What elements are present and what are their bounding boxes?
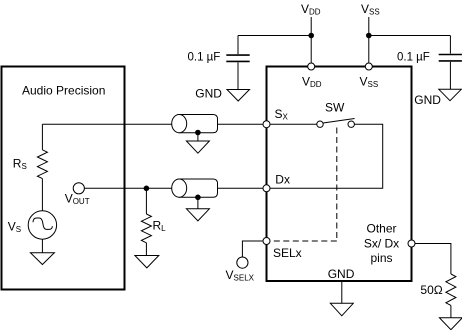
- svg-text:GND: GND: [328, 267, 355, 281]
- svg-text:50Ω: 50Ω: [420, 283, 442, 297]
- wire Sx inside IC: [270, 123, 317, 125]
- svg-text:0.1 µF: 0.1 µF: [397, 52, 430, 64]
- switch SW: [317, 119, 355, 128]
- junction coax1 shield: [195, 130, 201, 136]
- svg-text:Dx: Dx: [275, 173, 290, 187]
- wire RL top: [145, 188, 147, 214]
- wire SELx to VSELX: [242, 241, 263, 257]
- pin Sx: [263, 121, 270, 128]
- ground below RL: [135, 256, 159, 268]
- ground below R50: [439, 318, 462, 330]
- wire coax1 to ground: [197, 133, 199, 142]
- box Audio Precision: [2, 67, 125, 290]
- wire VDD vertical: [310, 17, 312, 63]
- dashed control line horizontal: [270, 240, 337, 242]
- svg-text:SELx: SELx: [273, 246, 302, 260]
- pin VSS: [365, 63, 372, 70]
- terminal VSELX: [237, 257, 248, 268]
- ground below coax1: [186, 141, 209, 153]
- junction VSS-cap: [366, 33, 372, 39]
- terminal VOUT: [73, 183, 84, 194]
- resistor RS: [37, 150, 47, 179]
- resistor RL: [141, 214, 151, 243]
- pin Dx: [263, 185, 270, 192]
- wire VSS to C2: [369, 35, 451, 37]
- coax shield on Sx line: [172, 115, 218, 133]
- junction Dx-RL: [144, 186, 150, 192]
- pin Other SxDx: [408, 240, 415, 247]
- wire RL to ground: [145, 243, 147, 256]
- wire RS top: [41, 124, 43, 150]
- wire Other pin to R 50: [415, 244, 451, 275]
- wire VDD to C1: [238, 35, 311, 37]
- ground below VS: [30, 253, 54, 265]
- svg-text:GND: GND: [195, 87, 222, 101]
- node VSS supply label: [361, 2, 380, 17]
- wire VS to ground: [41, 239, 43, 253]
- capacitor C2 0.1uF: [439, 36, 462, 90]
- ground below C2: [439, 89, 462, 100]
- svg-text:Other: Other: [366, 222, 396, 236]
- svg-text:Audio Precision: Audio Precision: [22, 84, 105, 98]
- wire coax2 to ground: [197, 197, 199, 209]
- ground below coax2: [186, 209, 209, 221]
- svg-text:Sx/ Dx: Sx/ Dx: [364, 236, 399, 250]
- dashed control line vertical: [336, 128, 338, 242]
- pin VDD: [308, 63, 315, 70]
- label Other SxDx pins: [364, 222, 399, 266]
- source VS: [28, 211, 56, 239]
- wire Sx line: [42, 123, 263, 125]
- junction VDD-cap: [308, 33, 314, 39]
- svg-text:SW: SW: [325, 101, 345, 115]
- svg-text:pins: pins: [370, 251, 392, 265]
- ground below IC: [330, 303, 353, 316]
- IC box U1: [267, 67, 412, 282]
- ground below C1: [227, 90, 250, 102]
- wire SW to Dx inside IC: [270, 124, 383, 188]
- svg-text:0.1 µF: 0.1 µF: [188, 52, 221, 64]
- resistor 50ohm: [446, 274, 456, 305]
- junction coax2 shield: [195, 195, 201, 201]
- wire Dx line: [84, 187, 263, 189]
- pin SELx: [263, 238, 270, 245]
- wire R50 to ground: [450, 305, 452, 317]
- wire VSS vertical: [368, 17, 370, 63]
- coax shield on Dx line: [172, 179, 218, 197]
- capacitor C1 0.1uF: [226, 36, 249, 90]
- wire GND pin down: [341, 282, 343, 303]
- node VDD supply label: [301, 2, 321, 17]
- wire RS to VS: [41, 179, 43, 211]
- svg-text:GND: GND: [414, 93, 441, 107]
